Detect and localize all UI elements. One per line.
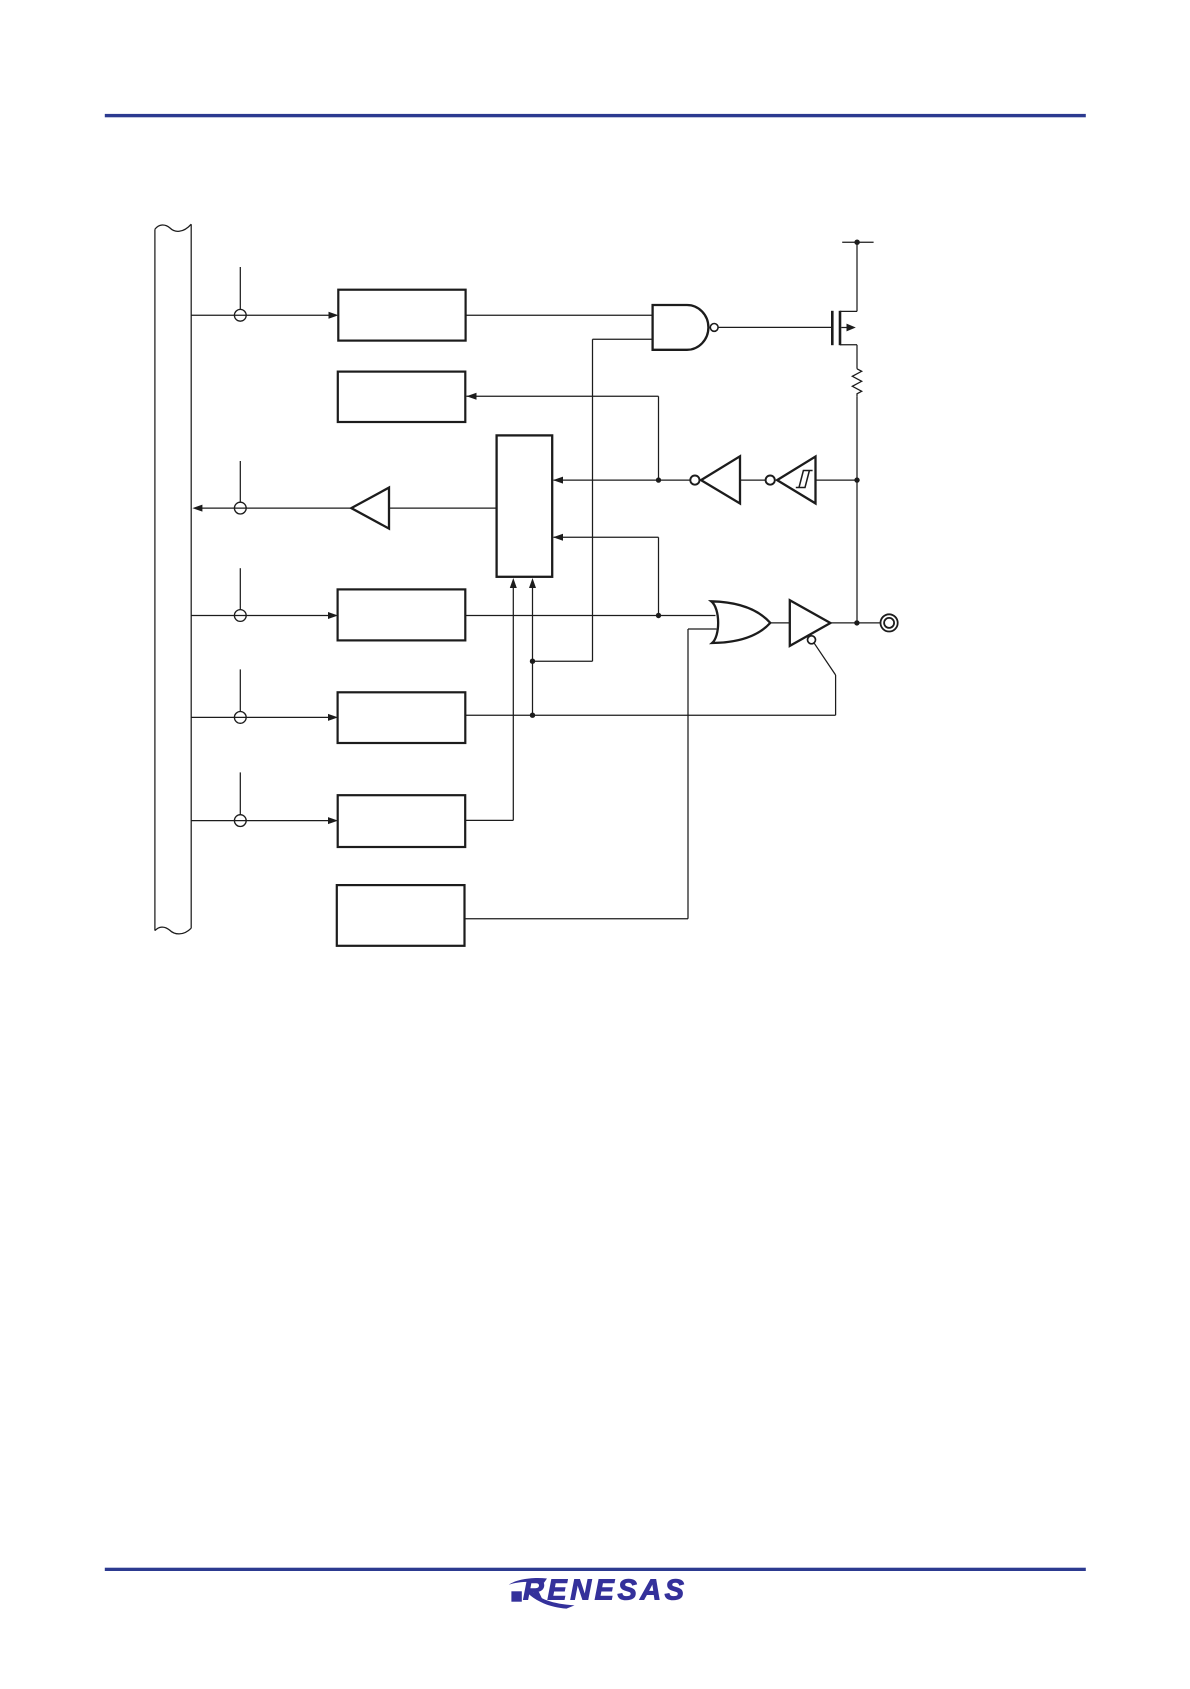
register box 3: [338, 589, 466, 640]
register box 6: [337, 885, 465, 946]
wire box4 output line: [465, 714, 835, 716]
wire NAND input B L-path: [533, 339, 653, 661]
wire Schmitt input: [816, 479, 858, 481]
tri-state enable bubble: [808, 636, 816, 644]
register box 5: [338, 795, 466, 847]
junction dot B: [656, 613, 661, 618]
wire mux bottom input B vertical: [529, 578, 536, 715]
inverter output bubble: [690, 476, 699, 485]
junction dot A: [656, 477, 661, 482]
wire bus tap row 1: [191, 267, 338, 319]
node circle row 2: [234, 502, 246, 514]
wire MOSFET source down: [856, 345, 858, 369]
Renesas logo: [509, 1574, 685, 1608]
pull-up MOSFET Q1: [832, 311, 857, 345]
I/O pin pad: [881, 614, 898, 631]
output tri-state buffer: [790, 600, 831, 646]
VCC rail: [842, 242, 873, 311]
multiplexer box: [497, 435, 553, 576]
Schmitt trigger buffer: [777, 457, 815, 504]
inverter triangle: [701, 456, 740, 503]
wire bus tap row 4: [191, 669, 338, 721]
footer rule: [105, 1568, 1086, 1571]
wire inverter output to mux select input: [553, 477, 690, 484]
wire box3 output to OR gate: [465, 615, 715, 617]
register box 2: [338, 372, 466, 422]
node circle row 1: [234, 309, 246, 321]
wire tri-state enable from box4 line: [814, 643, 835, 715]
wire box6 output to OR gate lower input: [465, 629, 717, 919]
node circle row 5: [234, 815, 246, 827]
wire pin node vertical: [856, 396, 858, 623]
OR gate U2: [711, 601, 770, 643]
wire into box 2 from node column: [467, 393, 659, 400]
pull-up resistor R1: [852, 369, 861, 396]
wire tri-state output to pad: [830, 622, 880, 624]
internal data bus (vertical bus band with torn ends): [155, 224, 191, 934]
wire mux input 2 L-path: [553, 534, 659, 616]
NAND gate U1: [653, 305, 709, 350]
wire bus tap row 2 (read path to bus): [192, 461, 351, 512]
node circle row 3: [234, 610, 246, 622]
junction dot D: [530, 659, 535, 664]
wire bus tap row 5: [191, 772, 338, 824]
junction dot C: [530, 713, 535, 718]
wire OR gate to tri-state: [770, 622, 790, 624]
VCC junction dot: [854, 240, 859, 245]
wire Schmitt to inverter: [740, 479, 766, 481]
Schmitt output bubble: [766, 476, 775, 485]
wire bus tap row 3: [191, 568, 338, 619]
wire mux output to read buffer: [389, 507, 497, 509]
register box 4: [338, 692, 466, 743]
register box 1: [338, 290, 465, 341]
header rule: [105, 114, 1086, 117]
NAND output bubble: [710, 324, 718, 332]
node circle row 4: [234, 712, 246, 724]
junction dot E: [854, 477, 859, 482]
wire box5 output to mux bottom input A: [465, 578, 517, 820]
read buffer triangle: [351, 488, 389, 529]
wire NAND output to MOSFET gate: [718, 326, 831, 328]
wire vertical box2 branch: [658, 396, 660, 480]
junction dot F: [854, 620, 859, 625]
wire box1 output to NAND input A: [466, 314, 653, 316]
